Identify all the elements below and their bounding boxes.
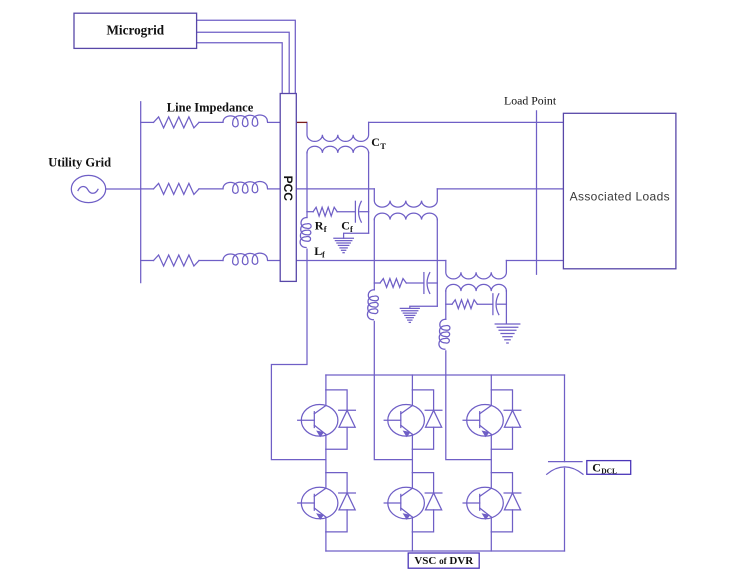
svg-text:f: f: [322, 250, 325, 260]
svg-text:Line Impedance: Line Impedance: [167, 100, 254, 114]
svg-text:Associated Loads: Associated Loads: [570, 190, 670, 204]
svg-text:VSC of DVR: VSC of DVR: [414, 555, 474, 567]
svg-text:R: R: [315, 218, 324, 232]
svg-text:T: T: [380, 141, 386, 151]
svg-text:DCL: DCL: [601, 467, 617, 476]
svg-text:C: C: [371, 135, 380, 149]
svg-text:f: f: [324, 224, 327, 234]
svg-text:C: C: [341, 218, 350, 232]
svg-text:Utility Grid: Utility Grid: [48, 156, 111, 170]
svg-text:C: C: [592, 461, 601, 475]
svg-text:Microgrid: Microgrid: [106, 23, 164, 38]
svg-text:Load Point: Load Point: [504, 93, 557, 107]
svg-text:f: f: [350, 224, 353, 234]
svg-text:PCC: PCC: [281, 176, 295, 202]
